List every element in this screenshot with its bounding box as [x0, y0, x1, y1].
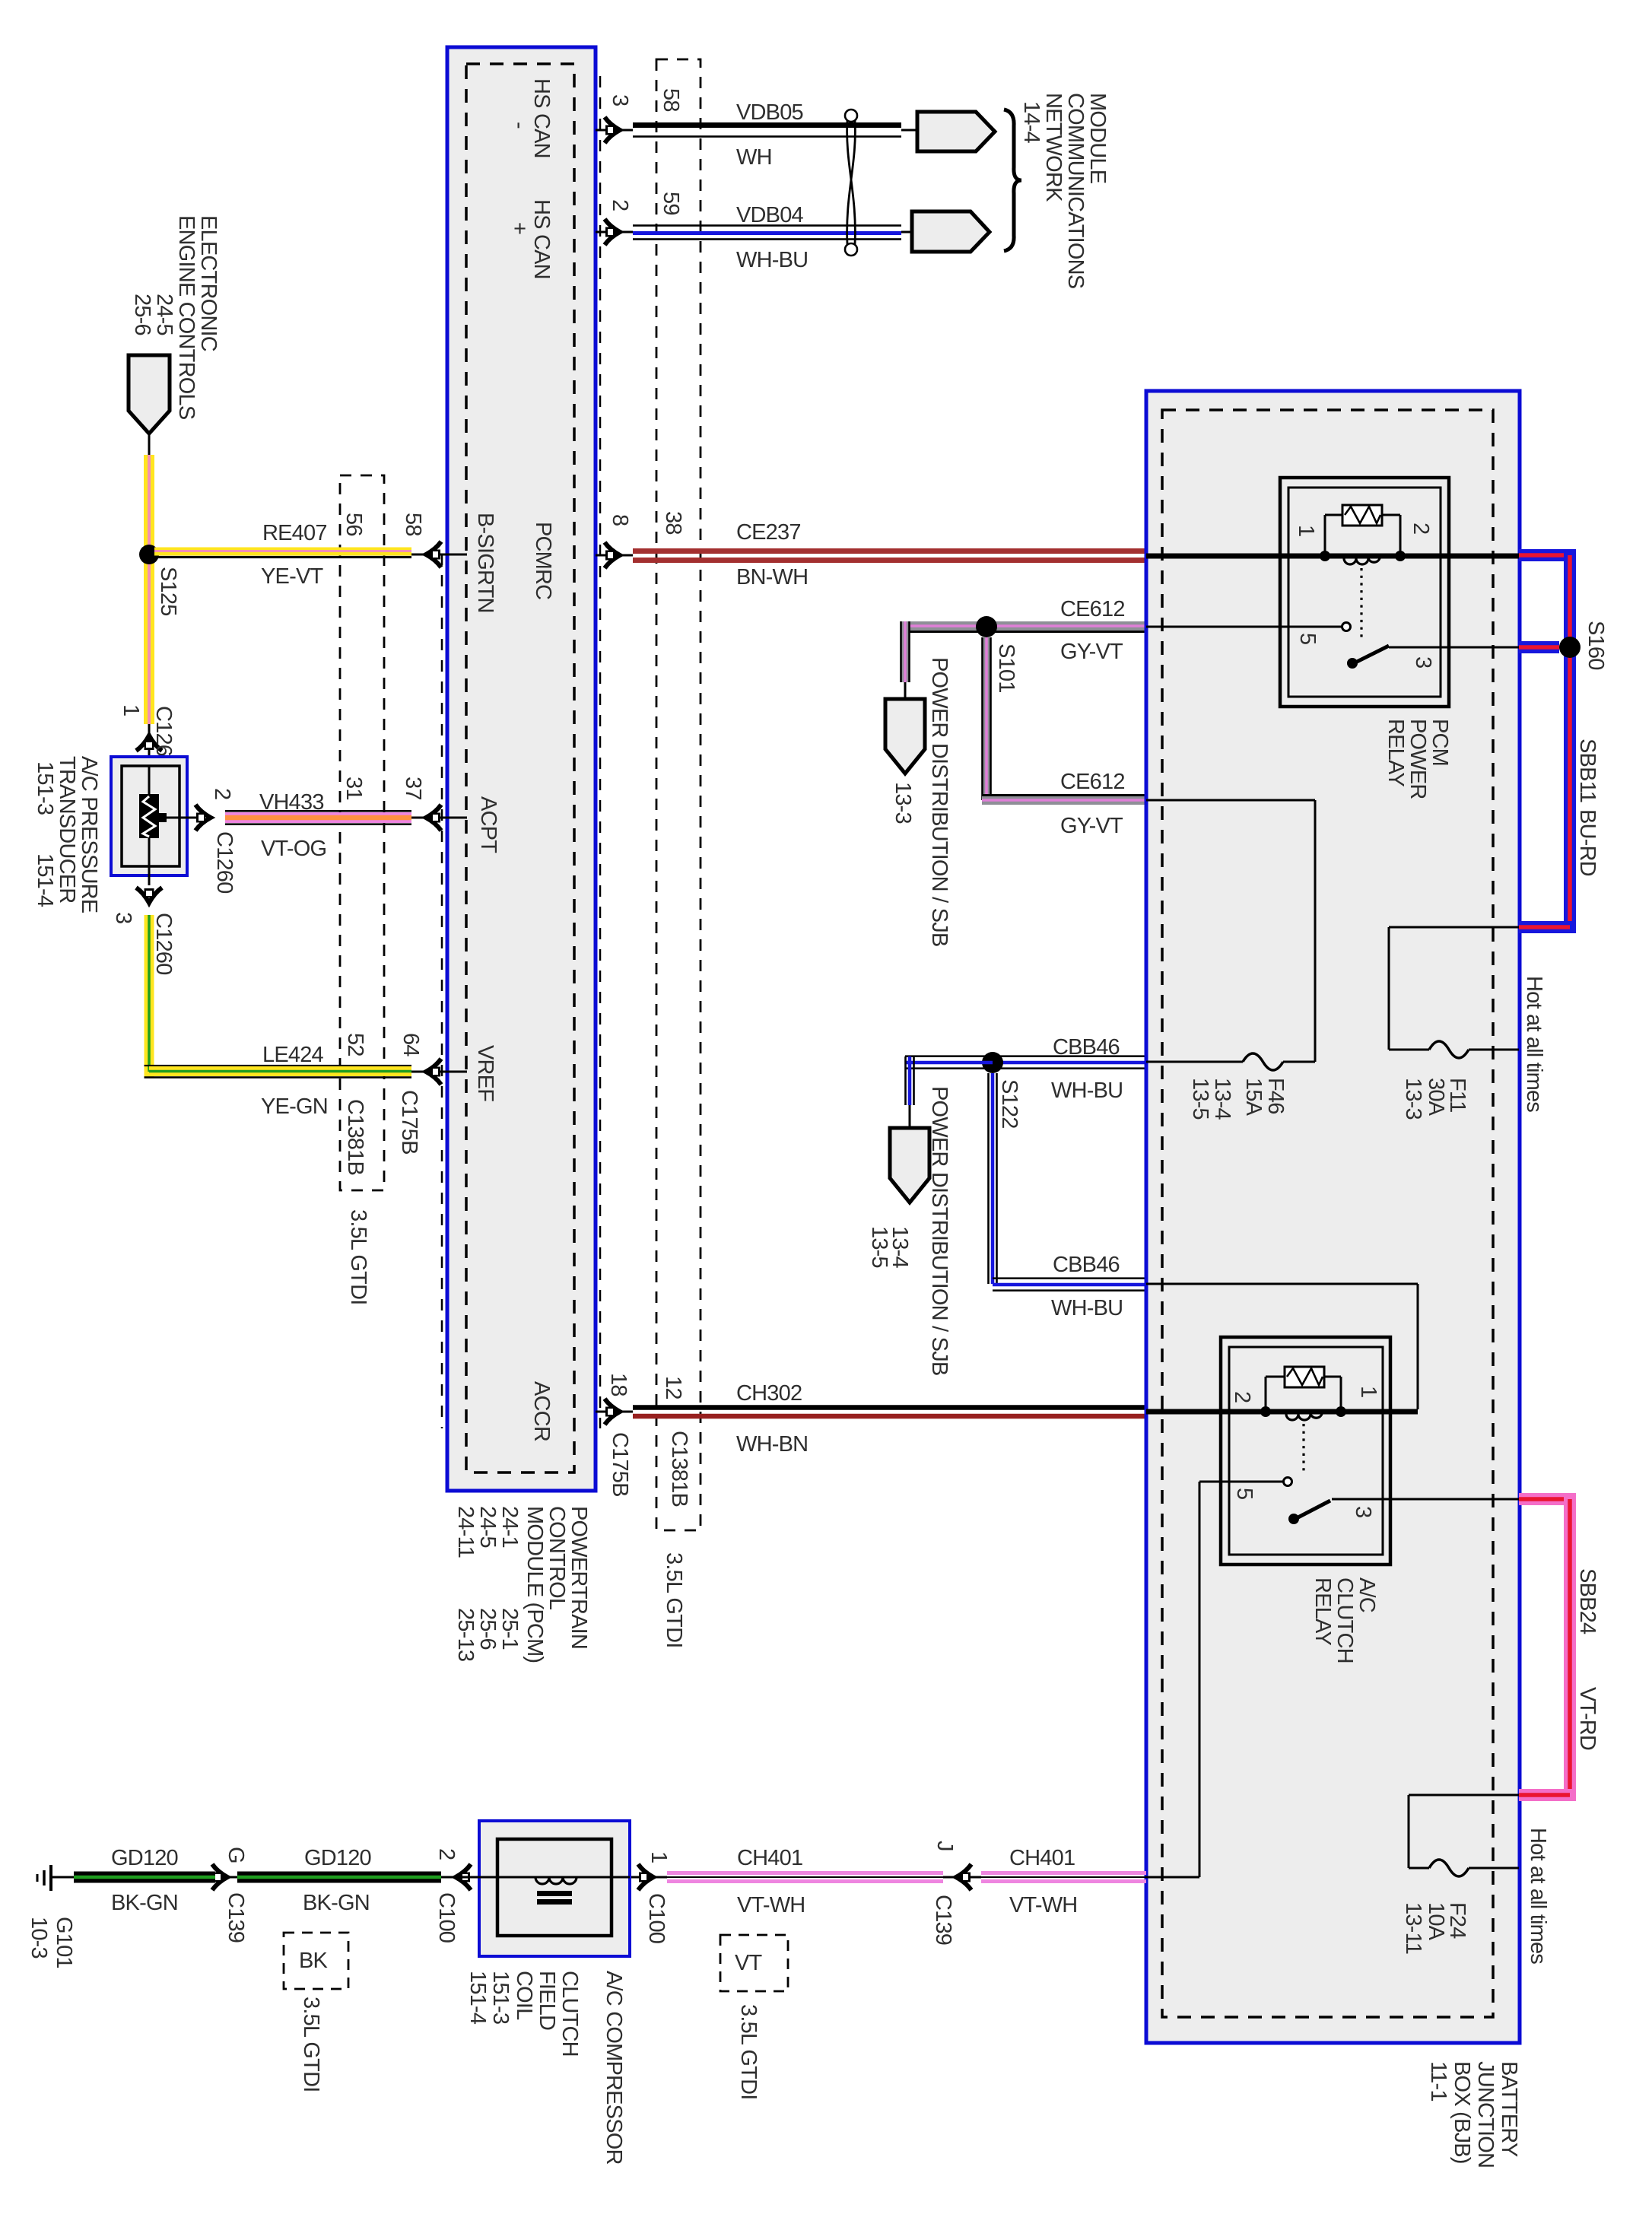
wire RE407 YE-VT horizontal [154, 548, 411, 556]
svg-text:B-SIGRTN: B-SIGRTN [473, 513, 497, 613]
A/C clutch relay box [1221, 1337, 1390, 1565]
svg-text:C1381B: C1381B [667, 1431, 691, 1507]
svg-text:YE-VT: YE-VT [261, 564, 323, 589]
svg-text:C100: C100 [644, 1893, 669, 1943]
wire GD120 BK-GN right segment [441, 1876, 472, 1879]
svg-text:13-11: 13-11 [1401, 1902, 1425, 1954]
field coil inductor [535, 1877, 577, 1884]
svg-text:3.5L GTDI: 3.5L GTDI [662, 1552, 686, 1648]
svg-text:JUNCTION: JUNCTION [1473, 2061, 1498, 2168]
svg-text:24-5: 24-5 [475, 1506, 500, 1548]
svg-text:SBB11: SBB11 [1575, 739, 1600, 802]
svg-text:BU-RD: BU-RD [1575, 809, 1600, 876]
svg-text:3.5L GTDI: 3.5L GTDI [299, 1997, 323, 2092]
svg-text:15A: 15A [1241, 1078, 1266, 1117]
svg-text:13-5: 13-5 [1188, 1078, 1212, 1120]
PCM pin 8 lead and connector arrow [596, 554, 633, 557]
wire GD120 BK-GN left segment [74, 1872, 215, 1883]
svg-text:151-4: 151-4 [33, 853, 57, 907]
svg-text:BK-GN: BK-GN [111, 1891, 178, 1915]
svg-text:10-3: 10-3 [27, 1917, 51, 1959]
svg-text:WH-BN: WH-BN [736, 1432, 808, 1457]
svg-text:3: 3 [1351, 1506, 1375, 1517]
dashed box BK (3.5L GTDI) [284, 1933, 348, 1989]
svg-text:C100: C100 [434, 1892, 459, 1943]
wire CBB46 WH-BU upper [993, 1055, 1146, 1057]
svg-text:SBB24: SBB24 [1575, 1568, 1600, 1635]
dashed box VT (3.5L GTDI) [720, 1935, 788, 1991]
PCM pin 18 lead and connector arrow [596, 1411, 633, 1413]
svg-text:25-6: 25-6 [475, 1608, 500, 1650]
svg-text:64: 64 [399, 1033, 423, 1056]
svg-text:Hot at all times: Hot at all times [1522, 976, 1546, 1112]
svg-text:NETWORK: NETWORK [1041, 93, 1066, 202]
twisted-pair symbol on CAN wires [845, 110, 857, 122]
svg-text:13-4: 13-4 [1210, 1078, 1234, 1120]
fuse F24 10A [1409, 1794, 1519, 1797]
svg-text:3.5L GTDI: 3.5L GTDI [736, 2004, 761, 2100]
svg-text:S101: S101 [994, 643, 1018, 693]
relay coil feed wire (CE237 continuation) [1146, 554, 1519, 559]
svg-text:52: 52 [343, 1033, 367, 1056]
connector C100 pin 2 arrow [456, 1864, 471, 1890]
wire SBB11 BU-RD [1519, 549, 1576, 561]
svg-text:-: - [507, 122, 532, 129]
connector C175B dashed line right of PCM [599, 76, 602, 1428]
connector C100 pin 1 arrow [630, 1876, 667, 1879]
svg-text:VDB04: VDB04 [736, 203, 804, 227]
svg-text:GY-VT: GY-VT [1060, 640, 1123, 664]
connector C1260 pin 3 arrow [148, 866, 151, 885]
svg-text:CBB46: CBB46 [1053, 1035, 1120, 1059]
svg-text:A/C PRESSURE: A/C PRESSURE [77, 756, 101, 913]
svg-text:14-4: 14-4 [1019, 101, 1044, 144]
wire SBB24 VT-RD [1519, 1493, 1576, 1505]
wire VDB04 WH-BU [633, 224, 901, 227]
svg-text:C175B: C175B [608, 1432, 632, 1497]
svg-text:25-13: 25-13 [453, 1608, 478, 1661]
svg-text:RE407: RE407 [262, 521, 327, 545]
connector C1381B dashed box (left of PCM) [340, 475, 384, 1190]
splice S122 [982, 1052, 1003, 1073]
fuse F11 30A [1389, 926, 1519, 929]
svg-text:CLUTCH: CLUTCH [1333, 1577, 1357, 1663]
svg-text:C1260: C1260 [151, 913, 176, 974]
splice S101 [976, 616, 997, 637]
svg-text:56: 56 [342, 513, 366, 536]
wire CH401 VT-WH left segment [667, 1871, 943, 1875]
svg-text:CBB46: CBB46 [1053, 1253, 1120, 1277]
svg-text:ELECTRONIC: ELECTRONIC [196, 215, 221, 351]
wire CE612 branch to power distribution [901, 621, 910, 682]
fuse F46 15A [1146, 799, 1315, 802]
PCM pin 37 connector arrow and lead [411, 817, 467, 819]
svg-text:24-5: 24-5 [152, 294, 176, 335]
svg-text:PCM: PCM [1428, 719, 1452, 766]
svg-text:F46: F46 [1263, 1078, 1288, 1114]
brace for module communications network [1004, 110, 1021, 251]
svg-text:BK: BK [299, 1949, 329, 1973]
svg-text:CE612: CE612 [1060, 597, 1125, 621]
wire CE612 GY-VT upper [901, 621, 1146, 631]
svg-text:58: 58 [659, 88, 683, 112]
svg-text:POWERTRAIN: POWERTRAIN [567, 1506, 591, 1649]
wire VDB05 WH [633, 122, 901, 128]
Battery Junction Box (BJB) [1146, 391, 1520, 2043]
wire VH433 VT-OG [225, 810, 411, 812]
off-page connector POWER DISTRIBUTION / SJB (upper pentagon) [885, 699, 925, 774]
svg-text:2: 2 [1230, 1391, 1254, 1403]
svg-text:13-3: 13-3 [1401, 1078, 1425, 1120]
svg-text:CH302: CH302 [736, 1381, 802, 1406]
A/C relay pin 5 contact [1284, 1478, 1292, 1486]
svg-text:POWER: POWER [1406, 719, 1430, 799]
svg-text:S125: S125 [156, 567, 180, 616]
svg-text:VT-RD: VT-RD [1575, 1687, 1600, 1750]
svg-text:CH401: CH401 [1009, 1846, 1075, 1870]
svg-text:10A: 10A [1424, 1902, 1448, 1941]
svg-text:13-5: 13-5 [867, 1226, 891, 1268]
PCM pin 64 connector arrow and lead [411, 1071, 467, 1073]
svg-text:VH433: VH433 [259, 790, 324, 815]
svg-text:POWER DISTRIBUTION / SJB: POWER DISTRIBUTION / SJB [927, 1086, 951, 1375]
A/C clutch relay coil [1260, 1406, 1271, 1417]
svg-text:38: 38 [661, 511, 685, 535]
svg-text:Hot at all times: Hot at all times [1526, 1828, 1550, 1964]
svg-text:BOX (BJB): BOX (BJB) [1450, 2061, 1474, 2164]
splice S160 [1559, 637, 1581, 658]
wire CBB46 WH-BU lower [991, 1073, 995, 1284]
svg-text:CE612: CE612 [1060, 770, 1125, 794]
off-page connector to module communications network (upper pentagon) [917, 112, 995, 151]
svg-text:CE237: CE237 [736, 520, 801, 545]
wire from relay pin 5 to CH401 [1199, 1481, 1283, 1483]
svg-text:2: 2 [1409, 523, 1433, 534]
svg-text:VT: VT [735, 1951, 763, 1975]
svg-text:TRANSDUCER: TRANSDUCER [55, 756, 79, 903]
svg-text:151-3: 151-3 [488, 1971, 513, 2024]
connector C1260 pin 2 arrow [195, 805, 211, 831]
connector C139 J arrow [943, 1876, 981, 1879]
svg-text:WH-BU: WH-BU [1051, 1296, 1123, 1320]
svg-text:3: 3 [111, 912, 135, 923]
svg-text:MODULE: MODULE [1085, 93, 1110, 184]
connector C1381B dashed box (right of PCM) [656, 59, 701, 1530]
off-page connector to module communications network (lower pentagon) [912, 211, 990, 252]
svg-text:C1260: C1260 [212, 831, 237, 893]
svg-text:37: 37 [401, 777, 425, 800]
relay coil feed wire (CH302 continuation) [1146, 1409, 1418, 1415]
wire CH302 WH-BN [633, 1405, 1146, 1410]
A/C relay actuator dotted line [1302, 1424, 1304, 1474]
svg-text:POWER DISTRIBUTION / SJB: POWER DISTRIBUTION / SJB [927, 657, 951, 946]
svg-text:HS CAN: HS CAN [529, 78, 554, 158]
svg-text:LE424: LE424 [262, 1043, 324, 1067]
wire YE-VT vertical (EEC to transducer) [144, 455, 154, 724]
wire from relay pin 3 to S160 [1389, 646, 1570, 649]
svg-text:FIELD: FIELD [535, 1971, 559, 2030]
svg-text:24-11: 24-11 [453, 1506, 478, 1558]
svg-text:ENGINE CONTROLS: ENGINE CONTROLS [174, 215, 199, 420]
svg-text:2: 2 [608, 199, 632, 211]
wire from CE612 to relay pin 5 [1146, 626, 1342, 628]
svg-text:YE-GN: YE-GN [261, 1094, 328, 1119]
svg-text:COIL: COIL [512, 1971, 536, 2020]
wire CE237 BN-WH [633, 548, 1146, 554]
PCM pin 58 connector arrow and lead [411, 554, 467, 556]
svg-text:151-4: 151-4 [465, 1971, 490, 2025]
svg-text:1: 1 [1294, 525, 1318, 536]
svg-text:30A: 30A [1424, 1078, 1448, 1117]
svg-text:GD120: GD120 [304, 1846, 371, 1870]
svg-text:3.5L GTDI: 3.5L GTDI [346, 1209, 370, 1305]
A/C compressor clutch field coil box [479, 1821, 630, 1956]
svg-text:25-6: 25-6 [130, 294, 154, 335]
svg-text:CH401: CH401 [737, 1846, 802, 1870]
svg-text:RELAY: RELAY [1384, 719, 1408, 786]
svg-text:2: 2 [210, 788, 234, 799]
svg-text:PCMRC: PCMRC [531, 522, 555, 599]
svg-text:1: 1 [119, 704, 143, 716]
svg-text:5: 5 [1295, 633, 1320, 644]
svg-text:VDB05: VDB05 [736, 100, 803, 125]
svg-text:24-1: 24-1 [497, 1506, 522, 1548]
svg-text:ACPT: ACPT [476, 796, 500, 853]
svg-text:18: 18 [606, 1373, 631, 1396]
svg-text:3: 3 [608, 94, 632, 106]
A/C relay switch blade [1292, 1501, 1330, 1520]
svg-text:WH: WH [736, 145, 772, 170]
wire CBB46 branch to power distribution [905, 1055, 993, 1057]
ground G101 [52, 1876, 74, 1879]
relay pin 5 contact [1342, 623, 1351, 631]
svg-text:C175B: C175B [397, 1090, 421, 1155]
wire LE424 YE-GN [145, 915, 154, 1077]
svg-text:59: 59 [659, 192, 683, 215]
svg-text:J: J [932, 1841, 957, 1851]
wire from A/C relay pin 3 to SBB24 [1332, 1498, 1519, 1501]
svg-text:1: 1 [647, 1851, 671, 1863]
connector C139 G arrow [215, 1876, 237, 1879]
svg-text:VT-OG: VT-OG [261, 837, 326, 861]
PCM power relay coil [1320, 551, 1330, 561]
PCM module box (Powertrain Control Module) [447, 47, 596, 1491]
svg-text:WH-BU: WH-BU [736, 248, 808, 272]
svg-text:5: 5 [1232, 1488, 1256, 1499]
svg-text:VT-WH: VT-WH [737, 1893, 805, 1917]
svg-text:C139: C139 [224, 1892, 248, 1943]
svg-text:CLUTCH: CLUTCH [558, 1971, 582, 2057]
svg-text:A/C: A/C [1355, 1577, 1379, 1612]
svg-text:S122: S122 [997, 1079, 1021, 1129]
svg-text:COMMUNICATIONS: COMMUNICATIONS [1063, 93, 1088, 289]
svg-text:WH-BU: WH-BU [1051, 1079, 1123, 1103]
PCM pin 2 lead and connector arrow [596, 231, 633, 234]
svg-text:1: 1 [1356, 1386, 1380, 1397]
svg-text:+: + [507, 222, 532, 234]
connector C1260 pin 1 arrow [148, 724, 151, 757]
svg-text:BN-WH: BN-WH [736, 565, 808, 589]
svg-text:31: 31 [342, 777, 366, 800]
svg-text:ACCR: ACCR [529, 1381, 554, 1441]
splice S125 [139, 545, 159, 564]
svg-text:HS CAN: HS CAN [529, 199, 554, 279]
svg-text:151-3: 151-3 [33, 761, 57, 815]
connector C175B dashed line left of PCM [441, 554, 443, 1428]
wire CBB46 feed to relay pin 1 [1146, 1283, 1418, 1285]
svg-text:CONTROL: CONTROL [545, 1506, 569, 1610]
svg-text:13-3: 13-3 [891, 782, 915, 824]
svg-text:58: 58 [401, 513, 425, 536]
svg-text:GY-VT: GY-VT [1060, 814, 1123, 838]
PCM pin 3 lead and connector arrow [596, 129, 633, 132]
svg-text:3: 3 [1411, 656, 1435, 668]
wire CH401 VT-WH right segment [981, 1871, 1146, 1875]
svg-text:MODULE (PCM): MODULE (PCM) [523, 1506, 547, 1663]
svg-text:C139: C139 [931, 1895, 955, 1945]
transducer variable resistor element [139, 794, 159, 838]
svg-text:RELAY: RELAY [1310, 1577, 1335, 1645]
svg-text:11-1: 11-1 [1426, 2061, 1450, 2102]
svg-text:S160: S160 [1584, 621, 1608, 670]
svg-text:G: G [224, 1847, 248, 1863]
svg-text:8: 8 [608, 514, 632, 526]
svg-text:VT-WH: VT-WH [1009, 1893, 1077, 1917]
svg-text:C1381B: C1381B [343, 1099, 367, 1175]
svg-text:VREF: VREF [473, 1045, 497, 1101]
svg-text:BATTERY: BATTERY [1497, 2061, 1521, 2157]
svg-text:G101: G101 [52, 1917, 76, 1968]
PCM power relay box [1280, 478, 1449, 707]
relay switch blade [1351, 646, 1389, 665]
wire CE612 GY-VT lower [982, 637, 991, 800]
svg-text:GD120: GD120 [111, 1846, 178, 1870]
relay actuator dotted line [1360, 568, 1362, 641]
svg-text:A/C COMPRESSOR: A/C COMPRESSOR [602, 1971, 626, 2165]
off-page connector POWER DISTRIBUTION / SJB (lower pentagon) [890, 1128, 929, 1202]
A/C pressure transducer box [111, 757, 187, 875]
svg-text:2: 2 [434, 1848, 459, 1860]
svg-text:BK-GN: BK-GN [303, 1891, 370, 1915]
svg-text:25-1: 25-1 [497, 1608, 522, 1650]
svg-text:12: 12 [661, 1376, 685, 1399]
off-page connector ELECTRONIC ENGINE CONTROLS (pentagon) [129, 355, 170, 434]
